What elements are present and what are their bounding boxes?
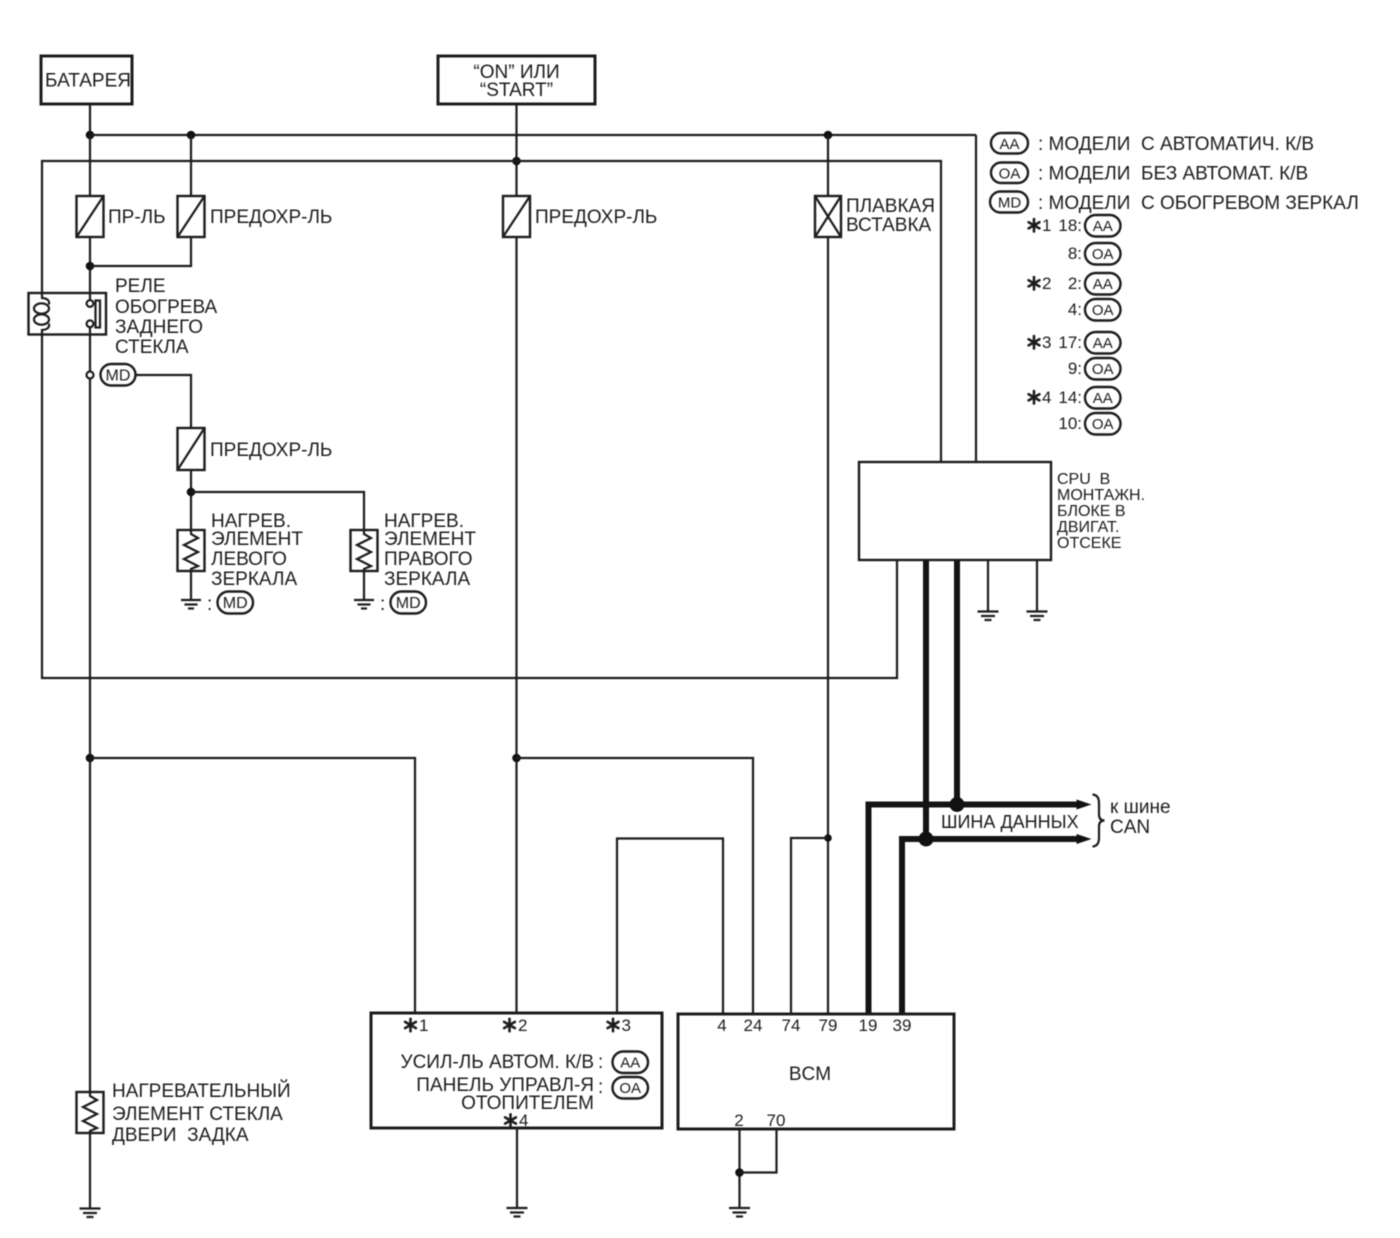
svg-text:OA: OA [1092,246,1114,263]
svg-text:ПРАВОГО: ПРАВОГО [384,549,473,570]
svg-text:19: 19 [859,1016,878,1035]
svg-text:14:: 14: [1058,388,1082,407]
resistor tailgate glass heating element [77,1092,104,1133]
svg-text:BCM: BCM [789,1064,831,1085]
svg-text:AA: AA [1093,335,1113,352]
svg-text:: МОДЕЛИ С ОБОГРЕВОМ ЗЕРКАЛ: : МОДЕЛИ С ОБОГРЕВОМ ЗЕРКАЛ [1038,193,1359,214]
node fusible link tap [824,131,833,140]
svg-text:CPU В: CPU В [1057,471,1110,488]
svg-text:2:: 2: [1068,274,1082,293]
legend row *1 18 AA [1029,215,1121,237]
fusible link ПЛАВКАЯ ВСТАВКА [815,196,935,237]
ground BCM pin 2 [729,1208,750,1217]
svg-text:: МОДЕЛИ БЕЗ АВТОМАТ. К/В: : МОДЕЛИ БЕЗ АВТОМАТ. К/В [1038,164,1308,185]
svg-text:к шине: к шине [1110,797,1171,818]
svg-text:OA: OA [999,166,1021,183]
svg-text:1: 1 [419,1016,428,1035]
svg-text:ПРЕДОХР-ЛЬ: ПРЕДОХР-ЛЬ [210,440,332,461]
svg-text:10:: 10: [1058,414,1082,433]
node relay feed junction [86,262,95,271]
svg-text:OA: OA [1092,416,1114,433]
wire CPU ground pin 2 [1036,560,1038,612]
svg-text::: : [598,1077,603,1098]
wire CAN top line to arrow [869,805,1078,1015]
legend option oval AA [991,133,1314,155]
wire battery line to tailgate heater [89,758,91,1092]
svg-text:3: 3 [1042,333,1051,352]
node BCM ground junction [735,1168,744,1177]
wire junction to amp pin *1 [90,758,415,1013]
wire left mirror heater to ground [190,571,192,600]
svg-text:ПР-ЛЬ: ПР-ЛЬ [108,207,166,228]
svg-text::: : [598,1052,603,1073]
svg-text:4: 4 [1042,388,1051,407]
svg-text:4: 4 [717,1016,726,1035]
svg-text:2: 2 [518,1016,527,1035]
wire fuse F1 bottom to relay contact [89,237,91,300]
svg-text:ОТСЕКЕ: ОТСЕКЕ [1057,535,1121,552]
svg-text:AA: AA [999,136,1019,153]
svg-text::: : [380,594,385,615]
svg-text:MD: MD [998,195,1021,212]
svg-text:ОБОГРЕВА: ОБОГРЕВА [115,297,217,318]
svg-text:OA: OA [1092,302,1114,319]
BCM box [678,1014,954,1129]
option tag MD for left mirror [207,592,253,616]
svg-text:OA: OA [1092,361,1114,378]
svg-text:4: 4 [519,1111,528,1130]
node MD option point [87,372,94,379]
wire CAN bottom line to arrow [902,839,1077,1014]
wire fuse F4 bottom [190,470,192,530]
battery box БАТАРЕЯ [41,56,132,104]
ignition box "ON" ИЛИ "START" [438,56,595,104]
svg-text:70: 70 [767,1111,786,1130]
wire fusible link top [827,135,829,196]
wire amp pin *4 to ground [516,1128,518,1208]
wire right mirror heater to ground [363,571,365,600]
node CAN top junction [950,797,965,812]
wire CAN-L thick from CPU [954,560,960,805]
ground CPU pin 2 [1027,612,1048,621]
pin *4 label [509,1114,512,1126]
svg-text:ЗЕРКАЛА: ЗЕРКАЛА [211,569,297,590]
svg-text:17:: 17: [1058,333,1082,352]
legend option oval OA [991,163,1308,185]
fuse F1 ПР-ЛЬ [77,196,166,237]
ground tailgate heater [80,1209,101,1218]
relay label РЕЛЕ ОБОГРЕВА ЗАДНЕГО СТЕКЛА [115,276,217,358]
fuse F2 ПРЕДОХР-ЛЬ [178,196,333,237]
node lower-left junction [86,754,95,763]
wire BCM pin 70 jog [740,1129,777,1173]
ground left mirror [181,600,201,609]
node fuse F2 tap [187,131,196,140]
wire top bus [90,134,976,136]
wire second bus [42,161,941,462]
svg-text:24: 24 [744,1016,763,1035]
node ignition branch junction [512,754,521,763]
ground CPU pin 1 [978,612,999,621]
svg-text:ЭЛЕМЕНТ СТЕКЛА: ЭЛЕМЕНТ СТЕКЛА [112,1104,283,1125]
svg-text:4:: 4: [1068,300,1082,319]
svg-text:3: 3 [622,1016,631,1035]
legend row 8 OA [1068,243,1121,265]
wire CPU ground pin 1 [987,560,989,612]
brace to CAN bus [1093,795,1105,847]
node ignition bus junction [512,157,521,166]
wire fuse F2 bottom jog [90,237,191,266]
resistor left mirror heating element [178,530,205,571]
pin *2 label [508,1019,511,1031]
amplifier box УСИЛ-ЛЬ АВТОМ. К/В / ПАНЕЛЬ УПРАВЛ-Я ОТОПИТЕЛЕМ [371,1013,662,1128]
option oval AA in amp [613,1052,649,1074]
ground right mirror [354,600,374,609]
svg-text:AA: AA [620,1055,640,1072]
option oval OA in amp [613,1077,649,1099]
svg-text:AA: AA [1093,276,1113,293]
svg-text:8:: 8: [1068,244,1082,263]
svg-text:MD: MD [396,595,421,612]
legend row 10 OA [1058,413,1120,435]
wire amp pin *3 jog to BCM pin 4 [617,839,723,1015]
svg-text:OA: OA [619,1080,641,1097]
svg-text:1: 1 [1042,216,1051,235]
legend row 9 OA [1068,358,1121,380]
arrowhead CAN bottom [1077,834,1092,844]
label left mirror element [211,511,303,590]
svg-text:39: 39 [893,1016,912,1035]
wire fuse F2 top [190,135,192,196]
relay contact [87,300,100,327]
wire tap to BCM pin 74 [791,838,828,1014]
svg-text:74: 74 [782,1016,801,1035]
svg-text:2: 2 [734,1111,743,1130]
svg-text:БАТАРЕЯ: БАТАРЕЯ [45,71,131,92]
svg-text:НАГРЕВАТЕЛЬНЫЙ: НАГРЕВАТЕЛЬНЫЙ [112,1080,291,1102]
svg-text:ЭЛЕМЕНТ: ЭЛЕМЕНТ [211,529,303,550]
wire top bus right drop to CPU [975,135,977,462]
wire below MD point down to lower junction [89,379,91,759]
svg-text:MD: MD [223,595,248,612]
label к шине CAN [1110,797,1171,838]
wire branch to BCM pin 24 [517,758,754,1014]
connector option oval MD [101,364,136,386]
svg-text:УСИЛ-ЛЬ АВТОМ. К/В: УСИЛ-ЛЬ АВТОМ. К/В [401,1052,594,1073]
relay coil [34,292,49,336]
relay К1 rear window defogger relay box [29,293,107,335]
wire fusible link line down to BCM pin 79 [827,238,829,1014]
fuse F3 ПРЕДОХР-ЛЬ [503,196,657,237]
option tag MD for right mirror [380,592,426,616]
svg-text:ЛЕВОГО: ЛЕВОГО [211,549,287,570]
svg-text:ШИНА ДАННЫХ: ШИНА ДАННЫХ [941,812,1079,832]
svg-text:CAN: CAN [1110,817,1150,838]
wire tailgate heater to ground [89,1133,91,1209]
svg-text:79: 79 [819,1016,838,1035]
svg-text:ПРЕДОХР-ЛЬ: ПРЕДОХР-ЛЬ [535,207,657,228]
svg-text:РЕЛЕ: РЕЛЕ [115,276,166,297]
svg-text:ДВИГАТ.: ДВИГАТ. [1057,519,1119,536]
svg-text::: : [207,594,212,615]
wire MD oval to fuse F4 [136,375,192,428]
svg-text:ЭЛЕМЕНТ: ЭЛЕМЕНТ [384,529,476,550]
svg-text:MD: MD [106,368,131,385]
svg-text:2: 2 [1042,274,1051,293]
wire CAN-H thick from CPU [923,560,929,839]
svg-text:ВСТАВКА: ВСТАВКА [846,215,932,236]
svg-text:“START”: “START” [480,80,553,101]
svg-text:МОНТАЖН.: МОНТАЖН. [1057,487,1145,504]
svg-text:AA: AA [1093,218,1113,235]
svg-text:ПРЕДОХР-ЛЬ: ПРЕДОХР-ЛЬ [210,207,332,228]
wire battery to top bus [89,104,91,135]
resistor right mirror heating element [351,530,378,571]
ground amplifier *4 [507,1208,528,1217]
svg-text:ЗАДНЕГО: ЗАДНЕГО [115,317,203,338]
legend row *2 2 AA [1029,273,1121,295]
svg-text:ЗЕРКАЛА: ЗЕРКАЛА [384,569,470,590]
wire fuse F1 top [89,135,91,196]
label tailgate heating element [112,1080,291,1146]
legend option oval MD [990,192,1359,215]
svg-text:СТЕКЛА: СТЕКЛА [115,337,189,358]
wire ignition fuse F3 bottom long drop [515,238,517,1013]
svg-text:: МОДЕЛИ С АВТОМАТИЧ. К/В: : МОДЕЛИ С АВТОМАТИЧ. К/В [1038,134,1314,155]
svg-text:9:: 9: [1068,359,1082,378]
node mirror heater split [187,488,196,497]
legend row 4 OA [1068,299,1121,321]
arrowhead CAN top [1077,800,1092,810]
pin *3 label [612,1019,615,1031]
CPU box U1 [859,462,1051,560]
wire BCM pin 2 to ground [738,1129,740,1208]
svg-text:БЛОКЕ В: БЛОКЕ В [1057,503,1126,520]
wire relay contact to MD point [89,327,91,372]
legend row *3 17 AA [1029,332,1121,354]
fuse F4 ПРЕДОХР-ЛЬ (mirror heaters) [178,428,333,470]
svg-text:18:: 18: [1058,216,1082,235]
legend row *4 14 AA [1029,387,1121,409]
svg-text:ДВЕРИ ЗАДКА: ДВЕРИ ЗАДКА [112,1125,249,1146]
pin *1 label [409,1019,412,1031]
wire to right mirror heater [191,492,364,530]
node CAN bottom junction [919,832,934,847]
svg-text:AA: AA [1093,390,1113,407]
node battery junction [86,131,95,140]
node pin74 tap [824,834,832,842]
svg-text:ПЛАВКАЯ: ПЛАВКАЯ [846,196,935,217]
wire ignition drop [515,104,517,196]
wire relay coil bottom / big loop left and bottom to CPU [42,335,897,679]
label CPU block [1057,471,1145,552]
label right mirror element [384,511,476,590]
